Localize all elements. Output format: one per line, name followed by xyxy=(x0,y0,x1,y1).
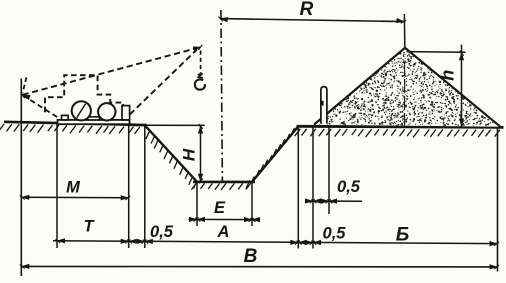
excavator right block xyxy=(122,106,130,120)
svg-text:Е: Е xyxy=(214,199,226,217)
spoil heap centre line xyxy=(404,62,406,126)
bucket arrow xyxy=(20,92,31,100)
dimension B line xyxy=(21,265,497,268)
svg-text:0,5: 0,5 xyxy=(323,225,347,243)
trench centre line dash-dot xyxy=(221,10,223,182)
svg-text:Б: Б xyxy=(396,225,409,246)
svg-text:М: М xyxy=(66,179,81,197)
dimension E line xyxy=(189,218,260,220)
ground line left xyxy=(4,122,147,125)
trench right slope hatch xyxy=(246,128,294,188)
svg-text:h: h xyxy=(438,70,458,81)
ext line trench bottom-left xyxy=(196,183,198,226)
svg-text:А: А xyxy=(217,223,230,241)
ext line left outer xyxy=(20,79,22,277)
excavator track base xyxy=(58,120,130,124)
svg-text:В: В xyxy=(244,246,258,267)
ground hatch left xyxy=(0,124,140,134)
ext line right outer xyxy=(497,128,499,272)
excavator left step xyxy=(62,115,69,120)
bucket edge dashed xyxy=(23,77,27,92)
svg-text:Н: Н xyxy=(180,148,199,161)
spoil heap coarse grains xyxy=(319,58,484,124)
chained dimension line T 0,5 A 0,5 Б xyxy=(53,241,498,244)
hoist rope dashed xyxy=(200,51,202,74)
trench outline xyxy=(145,125,299,182)
dimension H vertical xyxy=(200,126,202,182)
dimension 0,5 upper line xyxy=(306,200,363,202)
trench bottom hatch xyxy=(192,183,251,190)
dimension H top reference xyxy=(146,124,205,126)
excavator stay dashed line xyxy=(130,50,197,115)
spoil heap outline xyxy=(314,48,501,127)
excavator mid bar xyxy=(88,117,100,120)
dimension R line xyxy=(220,19,404,22)
ext line track left xyxy=(56,123,58,249)
excavator wheel 2 xyxy=(98,103,115,120)
dimension h vertical xyxy=(461,45,463,127)
grade stake on berm xyxy=(321,87,327,124)
trench bottom line thick xyxy=(193,181,255,184)
trench left slope hatch xyxy=(146,131,197,189)
svg-text:0,5: 0,5 xyxy=(150,223,174,241)
ext line heap left base xyxy=(312,128,314,249)
excavator drag rope dashed xyxy=(23,95,58,117)
excavator body dashed outline xyxy=(45,75,123,112)
ext line track right xyxy=(128,125,130,249)
boom tip arrow xyxy=(193,44,204,52)
ground line right xyxy=(297,126,504,127)
spoil heap stipple fill xyxy=(319,52,493,126)
ext line stake xyxy=(328,128,330,215)
dimension M line xyxy=(21,196,128,199)
ext line heap apex xyxy=(403,14,405,48)
dimension h top reference xyxy=(407,51,466,54)
ext line trench bottom-right xyxy=(251,183,253,226)
excavator wheel 1 xyxy=(72,101,91,120)
ext line trench top-left corner xyxy=(144,127,146,249)
ext line trench top-right corner xyxy=(297,128,299,249)
ground hatch right xyxy=(295,129,500,138)
svg-text:R: R xyxy=(300,0,314,20)
excavator boom dashed line xyxy=(23,48,198,95)
svg-text:0,5: 0,5 xyxy=(337,178,361,196)
hook xyxy=(198,74,203,78)
